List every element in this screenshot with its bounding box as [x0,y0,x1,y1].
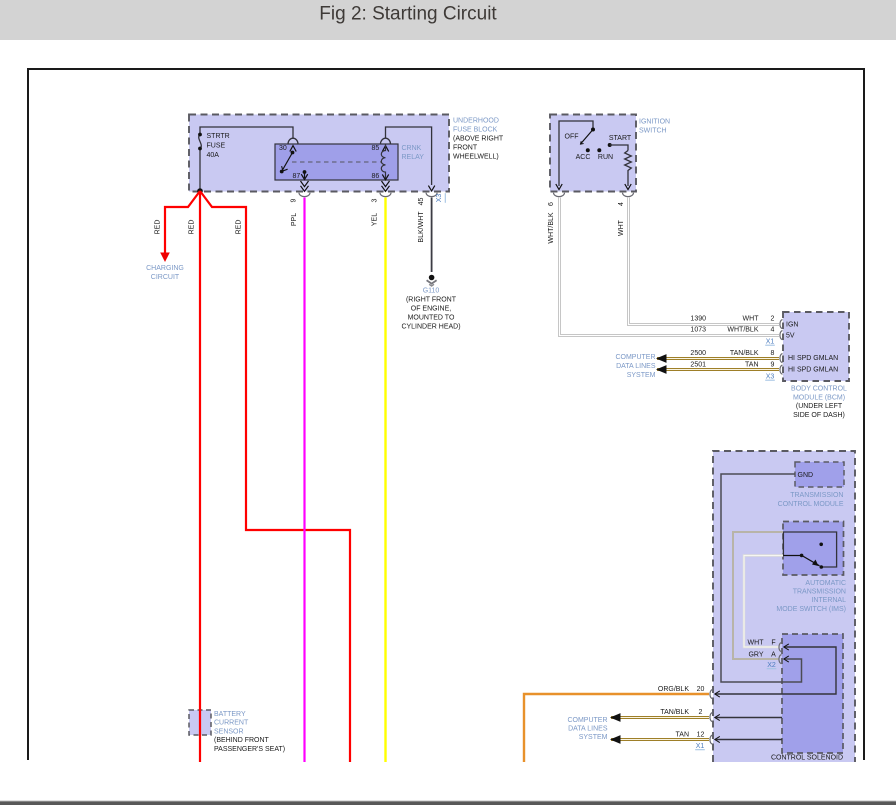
svg-text:YEL: YEL [372,213,379,226]
svg-text:2500: 2500 [690,350,706,357]
svg-text:TAN: TAN [676,732,689,739]
svg-text:X3: X3 [436,194,443,203]
svg-text:UNDERHOOD: UNDERHOOD [453,118,499,125]
svg-text:40A: 40A [207,152,220,159]
svg-text:RED: RED [236,220,243,235]
svg-text:12: 12 [697,732,705,739]
svg-text:ORG/BLK: ORG/BLK [658,686,689,693]
svg-text:85: 85 [372,145,380,152]
svg-text:IGN: IGN [786,322,798,329]
svg-text:WHT/BLK: WHT/BLK [548,212,555,243]
svg-text:(RIGHT FRONT: (RIGHT FRONT [406,297,457,304]
svg-text:STRTR: STRTR [207,133,230,140]
svg-text:START: START [609,135,632,142]
svg-text:GRY: GRY [748,652,763,659]
svg-text:CYLINDER HEAD): CYLINDER HEAD) [401,324,460,331]
svg-text:Fig 2: Starting Circuit: Fig 2: Starting Circuit [319,4,497,25]
svg-text:FUSE: FUSE [207,143,226,150]
svg-text:WHT: WHT [748,639,765,646]
svg-text:TAN: TAN [745,362,758,369]
svg-text:4: 4 [618,202,625,206]
svg-text:HI SPD GMLAN: HI SPD GMLAN [788,367,838,374]
svg-text:PASSENGER'S SEAT): PASSENGER'S SEAT) [214,746,285,753]
svg-text:2501: 2501 [690,362,706,369]
svg-text:CONTROL MODULE: CONTROL MODULE [778,501,844,508]
svg-text:1390: 1390 [690,316,706,323]
svg-text:CHARGING: CHARGING [146,265,184,272]
svg-text:GND: GND [798,472,814,479]
svg-text:6: 6 [548,202,555,206]
svg-text:X1: X1 [766,339,775,346]
svg-text:BODY CONTROL: BODY CONTROL [791,386,847,393]
svg-text:TAN/BLK: TAN/BLK [660,709,689,716]
svg-text:4: 4 [771,327,775,334]
svg-text:2: 2 [771,316,775,323]
svg-text:TRANSMISSION: TRANSMISSION [790,492,843,499]
svg-text:20: 20 [697,686,705,693]
svg-text:CIRCUIT: CIRCUIT [151,274,180,281]
svg-text:(ABOVE RIGHT: (ABOVE RIGHT [453,136,504,143]
svg-text:CRNK: CRNK [402,145,422,152]
svg-text:A: A [771,652,776,659]
svg-text:CONTROL SOLENOID: CONTROL SOLENOID [771,755,843,762]
svg-text:TAN/BLK: TAN/BLK [730,350,759,357]
svg-text:BATTERY: BATTERY [214,711,246,718]
svg-text:X2: X2 [767,662,776,669]
svg-text:IGNITION: IGNITION [639,119,670,126]
svg-text:X3: X3 [766,374,775,381]
svg-text:SENSOR: SENSOR [214,728,244,735]
svg-text:(BEHIND FRONT: (BEHIND FRONT [214,737,270,744]
svg-text:5V: 5V [786,333,795,340]
svg-text:86: 86 [372,173,380,180]
svg-text:30: 30 [279,145,287,152]
svg-text:COMPUTER: COMPUTER [615,354,655,361]
svg-text:3: 3 [372,198,379,202]
svg-text:OF ENGINE,: OF ENGINE, [411,306,452,313]
svg-text:FRONT: FRONT [453,145,478,152]
svg-text:9: 9 [291,198,298,202]
svg-text:G110: G110 [423,288,440,295]
svg-text:8: 8 [771,350,775,357]
svg-text:OFF: OFF [565,134,579,141]
svg-text:(UNDER LEFT: (UNDER LEFT [796,403,843,410]
svg-text:DATA LINES: DATA LINES [568,726,608,733]
svg-text:COMPUTER: COMPUTER [567,717,607,724]
svg-text:2: 2 [699,709,703,716]
svg-text:INTERNAL: INTERNAL [811,597,846,604]
svg-text:MOUNTED TO: MOUNTED TO [408,315,455,322]
svg-text:CURRENT: CURRENT [214,720,249,727]
svg-text:WHT: WHT [743,316,760,323]
svg-text:X1: X1 [696,743,705,750]
svg-text:RED: RED [189,220,196,235]
svg-text:TRANSMISSION: TRANSMISSION [793,589,846,596]
svg-text:MODE SWITCH (IMS): MODE SWITCH (IMS) [776,606,846,613]
svg-text:FUSE BLOCK: FUSE BLOCK [453,127,498,134]
svg-text:1073: 1073 [690,327,706,334]
svg-text:PPL: PPL [291,213,298,226]
svg-text:F: F [771,639,775,646]
svg-text:SWITCH: SWITCH [639,128,667,135]
svg-text:9: 9 [771,362,775,369]
svg-text:SYSTEM: SYSTEM [579,734,608,741]
svg-text:45: 45 [418,198,425,206]
svg-text:SIDE OF DASH): SIDE OF DASH) [793,412,845,419]
svg-text:BLK/WHT: BLK/WHT [418,211,425,243]
svg-text:RELAY: RELAY [402,154,425,161]
svg-text:87: 87 [293,173,301,180]
svg-text:WHEELWELL): WHEELWELL) [453,154,499,161]
svg-text:SYSTEM: SYSTEM [627,372,656,379]
svg-text:AUTOMATIC: AUTOMATIC [805,580,846,587]
svg-text:RUN: RUN [598,154,613,161]
svg-text:ACC: ACC [576,154,591,161]
svg-text:RED: RED [155,220,162,235]
svg-text:WHT/BLK: WHT/BLK [727,327,758,334]
svg-text:MODULE (BCM): MODULE (BCM) [793,394,845,401]
svg-text:DATA LINES: DATA LINES [616,363,656,370]
svg-text:HI SPD GMLAN: HI SPD GMLAN [788,355,838,362]
svg-text:WHT: WHT [618,219,625,236]
